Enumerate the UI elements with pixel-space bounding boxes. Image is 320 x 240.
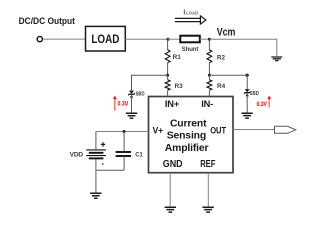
svg-text:IN-: IN-	[201, 99, 213, 109]
svg-text:LOAD: LOAD	[186, 11, 198, 16]
wire R4 to IN- pin	[208, 90, 210, 96]
svg-text:SBD: SBD	[136, 91, 145, 97]
current direction arrow	[175, 16, 206, 24]
ground (Vcm net)	[271, 57, 282, 61]
svg-text:C1: C1	[135, 152, 143, 159]
wire C1 bottom	[123, 156, 125, 170]
diode SBD (right)	[244, 89, 250, 96]
capacitor C1 label	[135, 152, 143, 159]
resistor R2	[207, 50, 226, 63]
svg-text:0.3V: 0.3V	[257, 102, 267, 108]
svg-text:Current: Current	[170, 118, 207, 129]
junction node E (C1 top)	[123, 130, 126, 133]
node Vcm label	[217, 26, 236, 38]
terminal circle (DC/DC output)	[37, 37, 42, 42]
pin label V+	[153, 126, 164, 136]
svg-text:R3: R3	[175, 83, 184, 90]
svg-text:R2: R2	[217, 55, 226, 62]
svg-text:Vcm: Vcm	[217, 26, 236, 38]
wire left SBD to ground	[131, 94, 133, 113]
junction node A (shunt left)	[167, 38, 170, 41]
ground (battery)	[90, 193, 101, 198]
battery plus mark	[101, 142, 105, 146]
wire V+ pin to supply node	[96, 131, 149, 133]
wire node D to right SBD branch	[209, 74, 247, 76]
wire node E down to C1	[123, 132, 125, 152]
U1 title	[165, 118, 209, 153]
svg-text:Shunt: Shunt	[182, 47, 199, 53]
wire terminal to LOAD	[43, 38, 86, 40]
shunt value label	[182, 47, 199, 53]
junction node C	[166, 74, 169, 77]
output connector flag	[275, 126, 296, 133]
label SBD (left)	[136, 91, 145, 97]
junction node B (shunt right)	[208, 38, 211, 41]
wire R2 to node D	[208, 63, 210, 75]
resistor R4	[207, 80, 226, 90]
wire OUT pin to connector	[233, 129, 275, 131]
wire down to right SBD	[246, 75, 248, 90]
svg-text:OUT: OUT	[210, 125, 226, 135]
ground (GND pin)	[165, 207, 176, 212]
ground (REF pin)	[202, 207, 213, 212]
svg-text:REF: REF	[200, 159, 215, 170]
wire shunt to node B	[200, 38, 210, 40]
battery VDD	[86, 150, 106, 159]
wire node A to shunt	[168, 38, 180, 40]
current label I_LOAD	[183, 8, 198, 17]
wire bottom node to C1 bottom	[96, 169, 124, 171]
svg-text:R1: R1	[173, 54, 182, 61]
wire bottom node down to ground	[95, 170, 97, 193]
svg-text:Sensing: Sensing	[167, 131, 206, 142]
battery VDD label	[70, 151, 84, 158]
node DC/DC Output label	[19, 16, 75, 26]
svg-text:R4: R4	[217, 83, 226, 90]
svg-text:IN+: IN+	[165, 99, 180, 109]
ground (right SBD)	[241, 113, 252, 118]
svg-text:GND: GND	[163, 159, 183, 170]
svg-text:Amplifier: Amplifier	[165, 143, 209, 154]
svg-text:V+: V+	[153, 126, 164, 136]
wire node A down to R1	[167, 39, 169, 50]
junction node D	[208, 74, 211, 77]
wire R1 to node C	[167, 63, 169, 75]
diode SBD (left)	[129, 91, 135, 98]
wire node D to R4 top	[208, 75, 210, 80]
wire GND pin to ground	[169, 173, 171, 207]
wire node B to right corner	[209, 38, 276, 40]
svg-text:0.3V: 0.3V	[118, 102, 129, 108]
wire down to ground (Vcm)	[276, 39, 278, 57]
pin label OUT	[210, 125, 226, 135]
pin label IN+	[165, 99, 180, 109]
svg-text:SBD: SBD	[250, 91, 259, 97]
op-amp U1 Current Sensing Amplifier box	[149, 97, 234, 173]
ground (left SBD)	[126, 113, 137, 118]
wire supply node down to battery	[95, 132, 97, 150]
wire node B down to R2	[208, 39, 210, 50]
resistor R1	[165, 50, 181, 63]
junction at right SBD corner	[246, 74, 249, 77]
load block LOAD	[86, 26, 126, 51]
annotation 0.3V text (left)	[118, 102, 129, 108]
pin label REF	[200, 159, 215, 170]
wire right SBD to ground	[246, 94, 248, 113]
svg-text:VDD: VDD	[70, 151, 84, 158]
wire R3 to IN+ pin	[167, 90, 169, 96]
wire LOAD to node A	[125, 38, 168, 40]
wire battery to bottom node	[95, 159, 97, 170]
label SBD (right)	[250, 91, 259, 97]
annotation arrow 0.3V (right)	[267, 96, 271, 108]
wire node C to R3 top	[167, 75, 169, 80]
pin label GND	[163, 159, 183, 170]
pin label IN-	[201, 99, 213, 109]
annotation 0.3V text (right)	[257, 102, 267, 108]
capacitor C1	[116, 152, 131, 156]
wire down to left SBD	[131, 75, 133, 91]
svg-text:DC/DC Output: DC/DC Output	[19, 16, 75, 26]
wire node C to left SBD branch	[132, 74, 168, 76]
resistor R3	[165, 80, 183, 90]
annotation arrow 0.3V (left)	[113, 96, 117, 111]
shunt resistor	[180, 36, 200, 43]
battery minus mark	[102, 163, 104, 165]
svg-text:LOAD: LOAD	[91, 32, 119, 46]
wire REF pin to ground	[207, 173, 209, 207]
